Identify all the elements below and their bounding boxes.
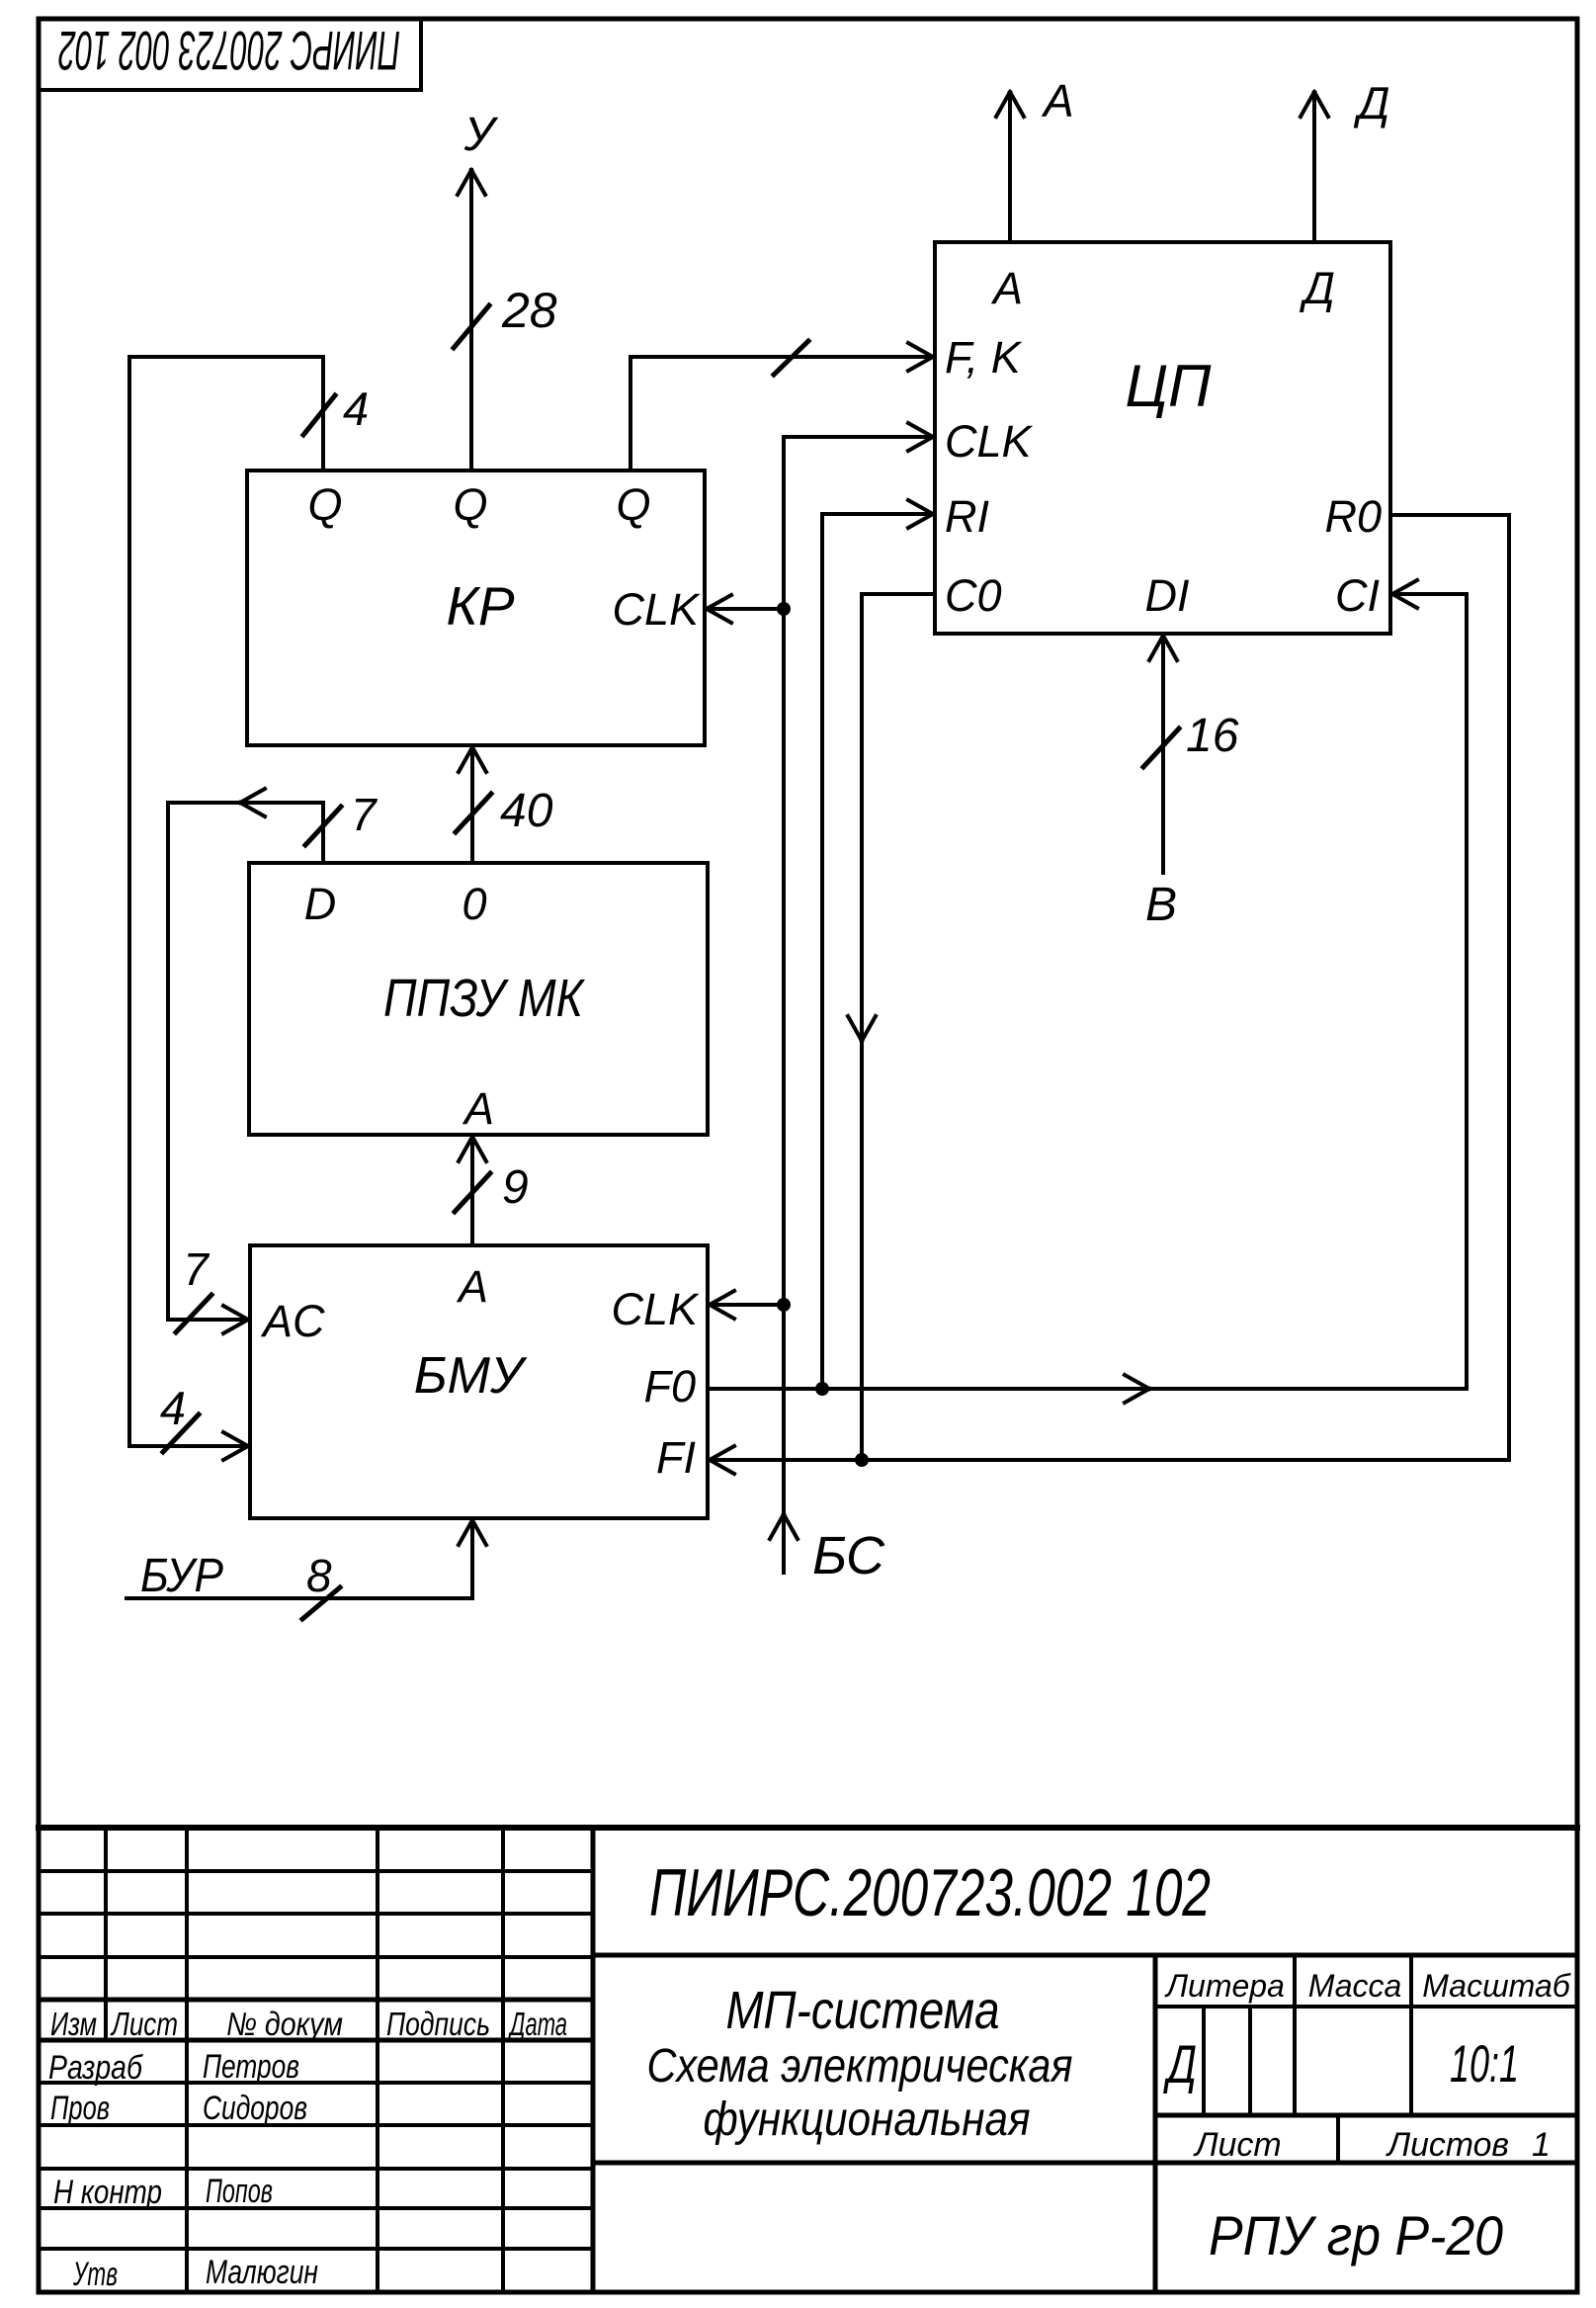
svg-text:ПИИРС 200723 002 102: ПИИРС 200723 002 102 — [58, 20, 400, 82]
svg-text:Листов: Листов — [1386, 2126, 1509, 2164]
wire RO of ЦП to FI of БМУ — [712, 515, 1509, 1460]
svg-text:F0: F0 — [643, 1361, 696, 1411]
svg-text:В: В — [1145, 879, 1177, 931]
bus slash 16 — [1143, 728, 1179, 767]
arrowhead into DI — [1149, 636, 1177, 660]
arrowhead A output — [996, 92, 1024, 117]
svg-text:ППЗУ МК: ППЗУ МК — [383, 969, 586, 1028]
litera subdivider x1218 — [1202, 2007, 1206, 2115]
arrowhead 40-bus — [459, 747, 486, 772]
table row line y1936 — [39, 1912, 593, 1916]
wire CLK branch to БМУ — [712, 1303, 784, 1307]
arrowhead into CLK КР — [707, 595, 731, 623]
litera header bottom — [1155, 2005, 1577, 2009]
svg-text:A: A — [462, 1083, 494, 1134]
svg-text:4: 4 — [160, 1382, 186, 1434]
svg-text:DI: DI — [1145, 570, 1190, 621]
table row line y1893 — [39, 1869, 593, 1873]
svg-text:Подпись: Подпись — [386, 2006, 490, 2042]
arrowhead into CLK БМУ — [710, 1291, 734, 1319]
title doc number cell — [593, 1953, 1577, 1958]
litera row bottom — [1155, 2113, 1577, 2118]
svg-text:Утв: Утв — [72, 2256, 118, 2293]
arrowhead into CLK ЦП — [908, 423, 933, 451]
svg-text:CLK: CLK — [611, 1284, 700, 1334]
svg-text:A: A — [990, 263, 1023, 313]
svg-text:Изм: Изм — [50, 2006, 97, 2042]
wire 9-bus БМУ to ППЗУ МК — [470, 1139, 474, 1245]
wire БС trunk to CLK ЦП — [784, 437, 931, 1573]
svg-text:C0: C0 — [945, 570, 1002, 621]
svg-text:Литера: Литера — [1164, 1968, 1285, 2004]
svg-text:КР: КР — [446, 575, 514, 637]
svg-text:0: 0 — [462, 879, 486, 929]
bus slash 40 — [456, 794, 491, 832]
arrowhead БС pointing up — [770, 1514, 798, 1539]
svg-text:БУР: БУР — [140, 1550, 223, 1602]
table column line x509 — [501, 1828, 505, 2292]
svg-text:Q: Q — [307, 479, 342, 530]
junction dot CO-FI — [855, 1453, 869, 1467]
block КР — [247, 470, 705, 745]
svg-text:F, K: F, K — [945, 332, 1023, 383]
arrowhead У — [458, 170, 485, 195]
bus slash 8 — [302, 1587, 340, 1619]
svg-text:Масса: Масса — [1308, 1968, 1402, 2004]
svg-text:Дата: Дата — [507, 2006, 567, 2042]
svg-text:Сидоров: Сидоров — [203, 2090, 307, 2127]
bus slash 7 bottom — [176, 1295, 211, 1332]
svg-text:Разраб: Разраб — [48, 2049, 144, 2087]
svg-text:функциональная: функциональная — [704, 2094, 1031, 2146]
svg-text:A: A — [456, 1261, 488, 1312]
table column line x107 — [104, 1828, 108, 2040]
document number box — [39, 19, 421, 90]
bus slash F,K — [774, 341, 808, 375]
arrowhead into AC — [223, 1306, 248, 1333]
arrowhead into F,K — [908, 343, 933, 371]
litera zone divider — [1153, 1955, 1158, 2292]
block ЦП — [935, 242, 1390, 634]
arrowhead Д output — [1301, 92, 1328, 117]
bus slash 9 — [455, 1173, 490, 1212]
litera/massa divider — [1293, 1955, 1297, 2115]
bus slash 28 — [454, 305, 489, 348]
svg-text:Лист: Лист — [110, 2006, 178, 2042]
bus slash 4 bottom — [163, 1414, 199, 1452]
svg-text:4: 4 — [343, 383, 369, 435]
svg-text:Д: Д — [1353, 77, 1389, 128]
svg-text:1: 1 — [1532, 2126, 1551, 2164]
table row line y2234 — [39, 2206, 593, 2210]
svg-text:Н контр: Н контр — [53, 2174, 162, 2211]
wire FO to RI of ЦП — [822, 514, 931, 1389]
wire Д output of ЦП — [1312, 94, 1316, 242]
svg-text:№ докум: № докум — [226, 2006, 343, 2042]
block ППЗУ МК — [249, 863, 708, 1135]
svg-text:RI: RI — [945, 491, 989, 542]
лист divider — [1336, 2115, 1340, 2163]
block БМУ — [250, 1245, 708, 1518]
table row line y2023 — [39, 1998, 593, 2003]
bus slash 4 top — [303, 395, 335, 435]
wire Q3 of КР to F,K of ЦП — [630, 357, 931, 470]
arrowhead on 7-loop top pointing left — [240, 789, 265, 816]
svg-text:Схема электрическая: Схема электрическая — [647, 2040, 1073, 2093]
wire У output bus from КР — [469, 170, 473, 470]
table row line y2194 — [39, 2167, 593, 2171]
wire БУР input to БМУ — [126, 1522, 472, 1598]
svg-text:БМУ: БМУ — [414, 1347, 528, 1405]
arrowhead into RI — [908, 500, 933, 528]
svg-text:Лист: Лист — [1193, 2126, 1282, 2164]
massa/masshtab divider — [1409, 1955, 1413, 2115]
wire 40-bus ППЗУ МК to КР — [470, 749, 474, 863]
svg-text:Масштаб: Масштаб — [1422, 1968, 1570, 2004]
wire 4-bus loop from Q1 of КР to БМУ — [129, 357, 323, 1446]
svg-text:Попов: Попов — [206, 2173, 273, 2210]
arrowhead 9-bus — [459, 1137, 486, 1161]
table row line y1980 — [39, 1955, 593, 1959]
svg-text:Д: Д — [1299, 263, 1335, 313]
svg-text:МП-система: МП-система — [726, 1981, 1000, 2040]
svg-text:Петров: Петров — [203, 2048, 299, 2086]
svg-text:ПИИРС.200723.002 102: ПИИРС.200723.002 102 — [649, 1855, 1211, 1930]
svg-text:8: 8 — [306, 1550, 332, 1601]
svg-text:Д: Д — [1162, 2033, 1197, 2094]
svg-text:7: 7 — [351, 789, 378, 840]
svg-text:Пров: Пров — [50, 2090, 110, 2127]
svg-text:40: 40 — [500, 785, 553, 837]
junction dot FO-RI — [815, 1382, 829, 1396]
title block top line — [39, 1825, 1577, 1831]
svg-text:D: D — [304, 879, 337, 929]
лист row bottom — [593, 2161, 1577, 2166]
litera subdivider x1265 — [1248, 2007, 1252, 2115]
bus slash 7 top — [305, 807, 341, 845]
svg-text:А: А — [1041, 75, 1074, 127]
svg-text:28: 28 — [501, 283, 557, 338]
svg-text:10:1: 10:1 — [1450, 2035, 1519, 2094]
table column line x189 — [185, 1828, 189, 2292]
table row line y2064 — [39, 2038, 593, 2043]
wire CLK branch to КР — [709, 607, 784, 611]
svg-text:Малюгин: Малюгин — [206, 2254, 318, 2291]
svg-text:БС: БС — [812, 1526, 885, 1585]
table row line y2275 — [39, 2247, 593, 2251]
arrowhead БУР into БМУ — [459, 1520, 486, 1545]
table row line y2150 — [39, 2123, 593, 2127]
arrowhead into CI — [1392, 580, 1417, 608]
svg-text:9: 9 — [502, 1161, 529, 1214]
svg-text:У: У — [463, 109, 499, 161]
wire A output of ЦП — [1008, 94, 1012, 242]
svg-text:16: 16 — [1186, 710, 1239, 762]
svg-text:CLK: CLK — [945, 416, 1034, 467]
svg-text:CI: CI — [1335, 570, 1380, 621]
title block main divider — [591, 1828, 596, 2292]
svg-text:Q: Q — [616, 479, 650, 530]
wire FO of БМУ to CI of ЦП — [708, 594, 1467, 1389]
arrowhead into FI — [710, 1446, 734, 1474]
svg-text:AC: AC — [260, 1296, 325, 1346]
arrowhead direction on FO wire — [1125, 1375, 1149, 1403]
wire CO of ЦП down to FI line — [862, 594, 935, 1460]
svg-text:РПУ гр Р-20: РПУ гр Р-20 — [1209, 2204, 1503, 2266]
junction dot CLK КР — [777, 602, 791, 616]
table column line x382 — [376, 1828, 379, 2292]
arrowhead 4-bus into БМУ — [223, 1432, 248, 1460]
table row line y2107 — [39, 2081, 593, 2085]
arrowhead direction down on CO wire — [848, 1016, 876, 1041]
svg-text:Q: Q — [453, 479, 487, 530]
svg-text:ЦП: ЦП — [1125, 353, 1212, 419]
junction dot CLK БМУ — [777, 1298, 791, 1312]
svg-text:7: 7 — [183, 1243, 210, 1295]
wire B input to DI of ЦП — [1161, 638, 1165, 873]
svg-text:R0: R0 — [1324, 491, 1382, 542]
svg-text:FI: FI — [656, 1432, 696, 1483]
svg-text:CLK: CLK — [612, 584, 701, 635]
wire 7-loop from D of ППЗУ МК to AC of БМУ — [168, 803, 323, 1320]
